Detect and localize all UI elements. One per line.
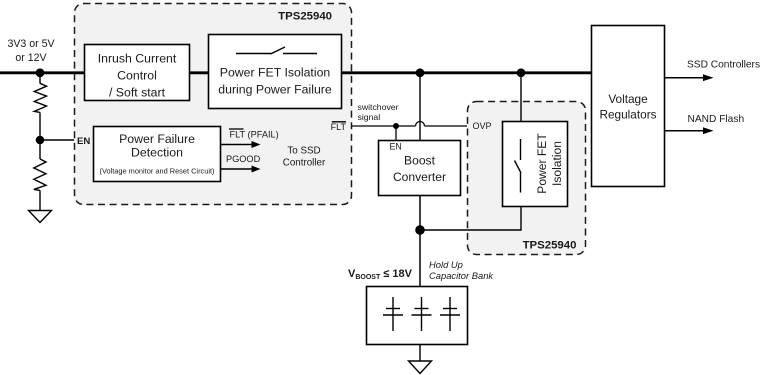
ground bottom <box>409 361 432 374</box>
svg-text:NAND Flash: NAND Flash <box>688 114 745 125</box>
node boost output junction <box>415 225 425 235</box>
node FET2 feed on bus <box>517 68 526 77</box>
svg-text:Boost: Boost <box>404 154 436 168</box>
wire FLT switchover signal to OVP <box>352 122 467 127</box>
label switchover signal <box>358 102 399 122</box>
svg-text:Capacitor Bank: Capacitor Bank <box>429 270 494 281</box>
wire bus segment from FET box to voltage regulators <box>341 71 591 74</box>
TPS25940 block 2 dashed container <box>468 102 586 255</box>
capacitor C1 <box>383 297 403 331</box>
svg-text:FLT (PFAIL): FLT (PFAIL) <box>230 130 279 140</box>
wire from bus down to resistor R1 <box>39 73 41 84</box>
svg-text:Regulators: Regulators <box>599 108 656 122</box>
block power FET isolation during power failure <box>209 35 342 109</box>
svg-text:signal: signal <box>358 112 381 122</box>
svg-text:Inrush Current: Inrush Current <box>98 52 177 66</box>
ground left <box>29 211 52 223</box>
svg-text:during Power Failure: during Power Failure <box>218 83 332 97</box>
svg-text:Power FET: Power FET <box>535 133 549 194</box>
block inrush current control <box>85 45 190 101</box>
net FLT label at dashed edge <box>331 122 347 132</box>
svg-text:Detection: Detection <box>131 146 183 160</box>
svg-text:switchover: switchover <box>358 102 399 112</box>
block power failure detection <box>94 127 221 182</box>
label to SSD controller <box>283 146 326 169</box>
wire NAND flash arrow <box>665 127 714 134</box>
capacitor C2 <box>412 297 432 331</box>
svg-text:To SSD: To SSD <box>287 146 320 157</box>
wire bus segment between inrush box and FET box <box>189 71 209 74</box>
svg-text:Converter: Converter <box>393 170 446 184</box>
svg-text:EN: EN <box>390 142 402 152</box>
wire main input bus segment 1 <box>0 71 85 74</box>
node boost feed on bus <box>416 68 425 77</box>
svg-text:OVP: OVP <box>473 121 492 131</box>
svg-text:EN: EN <box>77 136 90 147</box>
source label 3V3 or 5V or 12V <box>7 38 55 64</box>
block power FET isolation 2 <box>503 122 568 207</box>
svg-text:TPS25940: TPS25940 <box>523 240 577 252</box>
block hold up capacitor bank <box>367 287 468 345</box>
svg-text:Voltage: Voltage <box>608 92 648 106</box>
wire bus to boost converter input <box>419 73 421 140</box>
node input divider tap <box>36 68 45 77</box>
pin FLT (PFAIL) output label <box>229 129 279 140</box>
svg-text:3V3 or 5V: 3V3 or 5V <box>7 38 55 50</box>
switch S2 inside power FET isolation 2 <box>515 139 522 193</box>
svg-text:FLT: FLT <box>331 122 347 132</box>
svg-text:(Voltage monitor and Reset Cir: (Voltage monitor and Reset Circuit) <box>99 167 214 176</box>
wire boost EN drop <box>395 126 397 140</box>
wire capacitor bank to ground <box>419 345 421 361</box>
wire FLT (PFAIL) arrow <box>221 141 261 148</box>
TPS25940 block 1 dashed container <box>75 4 352 205</box>
svg-text:PGOOD: PGOOD <box>226 154 261 164</box>
svg-text:SSD Controllers: SSD Controllers <box>687 60 760 71</box>
svg-text:TPS25940: TPS25940 <box>278 11 332 23</box>
wire boost output down <box>419 196 421 286</box>
svg-text:Control: Control <box>117 69 157 83</box>
svg-text:Isolation: Isolation <box>550 141 564 186</box>
svg-text:/ Soft start: / Soft start <box>109 86 166 100</box>
node EN divider tap <box>36 136 45 145</box>
label hold up capacitor bank <box>429 259 494 281</box>
wire from R2 to ground <box>39 190 41 210</box>
svg-text:Power FET Isolation: Power FET Isolation <box>220 66 331 80</box>
wire bus to FET2 input <box>520 73 522 121</box>
wire PGOOD arrow <box>221 166 261 173</box>
block voltage regulators <box>592 26 665 187</box>
svg-text:Controller: Controller <box>283 158 326 169</box>
svg-text:or 12V: or 12V <box>15 52 47 64</box>
resistor R1 <box>34 83 46 112</box>
wire EN tap to dashed box <box>40 139 74 141</box>
wire junction to FET2 return <box>420 206 521 231</box>
node switchover to boost EN <box>393 123 399 129</box>
capacitor C3 <box>440 297 460 331</box>
switch S1 inside power FET isolation 1 <box>236 47 317 54</box>
block boost converter <box>379 141 461 196</box>
wire between R1 and R2 <box>39 112 41 159</box>
svg-text:Power Failure: Power Failure <box>119 132 195 146</box>
resistor R2 <box>34 159 46 190</box>
wire SSD controllers arrow <box>665 74 714 81</box>
svg-text:Hold Up: Hold Up <box>429 259 463 270</box>
